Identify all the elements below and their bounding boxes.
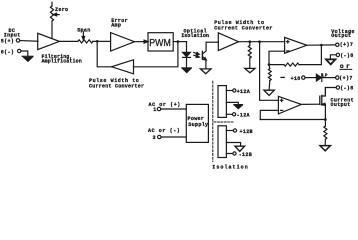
svg-text:Zero: Zero	[55, 7, 68, 13]
wire U6 output to terminal	[307, 44, 336, 46]
label 5(+)	[1, 38, 14, 44]
svg-text:Current Converter: Current Converter	[89, 84, 144, 90]
terminal +12B	[233, 129, 236, 132]
wire error amp to PWM with arrow	[135, 40, 148, 43]
resistor R2 feedback	[284, 63, 299, 66]
op-amp U2 error amp	[111, 33, 135, 51]
resistor R4 source	[324, 120, 327, 146]
label Pulse Width to Current Converter (top)	[214, 20, 273, 32]
label or	[340, 63, 352, 70]
label -12A	[237, 113, 250, 119]
terminal +18	[302, 76, 305, 79]
wire U7 output to gate	[301, 103, 320, 105]
terminal -12A	[233, 113, 236, 116]
wire tap B common	[226, 143, 240, 146]
svg-text:AC or (-): AC or (-)	[148, 128, 180, 134]
label Optical Isolation	[181, 29, 209, 39]
transformer winding B	[218, 126, 226, 158]
potentiometer Zero	[50, 6, 53, 21]
svg-text:Output: Output	[331, 33, 351, 39]
svg-text:Current Converter: Current Converter	[214, 26, 273, 32]
MOSFET Q2	[320, 88, 326, 120]
terminal (-)8 current output	[336, 86, 339, 89]
wire terminal 1 to power supply	[161, 108, 187, 110]
wire +18 to diode	[305, 77, 316, 79]
label DC Input	[4, 28, 21, 39]
label Span	[77, 28, 90, 34]
wire feedback tap down and left	[134, 42, 178, 67]
label Pulse Width to Current Converter (feedback)	[89, 78, 144, 90]
LED D1 optocoupler	[183, 42, 191, 68]
wire source feedback	[260, 119, 325, 121]
svg-text:+12A: +12A	[237, 89, 250, 95]
wire zero pot to op-amp U1	[51, 21, 53, 38]
svg-text:Supply: Supply	[188, 122, 208, 128]
wire PWM output	[173, 41, 186, 43]
label Current Output	[331, 98, 354, 109]
ground (open) at B common	[235, 146, 245, 151]
op-amp U5 pulse width to current converter	[218, 33, 238, 51]
label (-)8 current	[340, 86, 353, 92]
svg-text:-12B: -12B	[239, 152, 252, 158]
svg-text:-12A: -12A	[237, 113, 250, 119]
svg-text:Span: Span	[77, 28, 90, 34]
label Error Amp	[111, 18, 128, 28]
wire tap -12A	[226, 113, 232, 115]
terminal +12A	[233, 89, 236, 92]
terminal -12B	[233, 152, 236, 155]
op-amp U4 feedback pulse width to current converter	[112, 60, 134, 74]
label AC or (-) 3	[148, 128, 180, 141]
node D junction	[258, 40, 261, 43]
label 6(-)	[1, 49, 14, 55]
light arrows optocoupler	[194, 52, 199, 57]
op-amp U7 current output amp	[278, 96, 301, 114]
svg-text:(+)7: (+)7	[340, 42, 353, 48]
op-amp U1 filtering/amplification	[38, 33, 60, 49]
label Isolation	[212, 164, 248, 170]
label (+)7 voltage	[340, 42, 353, 48]
svg-text:Amplification: Amplification	[42, 59, 82, 65]
resistor R3 to ground	[268, 65, 271, 90]
ground (filled) at LED	[182, 68, 192, 73]
wire terminal 3 to power supply	[161, 136, 186, 138]
svg-text:PWM: PWM	[149, 38, 171, 49]
svg-text:6(-): 6(-)	[1, 49, 14, 55]
wire converter output to voltage amp	[239, 41, 285, 43]
wire 6(-) to ground	[21, 51, 28, 56]
svg-text:5(+): 5(+)	[1, 38, 14, 44]
svg-text:(-)8: (-)8	[340, 86, 353, 92]
node G junction	[324, 118, 327, 121]
op-amp U6 voltage output amp	[285, 37, 307, 53]
ground (filled) at DC input	[22, 56, 33, 61]
wire (-)8 to MOSFET drain	[325, 88, 336, 96]
wire tap A common	[226, 102, 238, 104]
wire 5(+) to op-amp U1 input	[20, 40, 38, 43]
diode D2 LP	[316, 74, 321, 82]
label AC or (+) 1	[149, 102, 181, 113]
label +12B	[240, 129, 253, 135]
resistor R1 load	[248, 42, 251, 68]
label Voltage Output	[331, 29, 354, 39]
svg-text:Isolation: Isolation	[212, 164, 248, 170]
svg-text:(-)8: (-)8	[340, 53, 353, 59]
terminal (+)7 current output	[336, 76, 339, 79]
label Filtering, Amplification	[42, 54, 82, 65]
svg-text:Isolation: Isolation	[181, 33, 209, 39]
label Zero	[55, 7, 68, 13]
label +12A	[237, 89, 250, 95]
node E junction at U6 output	[320, 44, 323, 47]
PWM block U3	[148, 33, 173, 51]
ground (filled) at A common	[234, 105, 243, 109]
label (+)7 current	[339, 76, 352, 82]
wire node D down to current amp	[260, 42, 279, 101]
svg-text:+18: +18	[291, 76, 301, 82]
ground (open) at R1	[245, 68, 255, 72]
svg-text:Output: Output	[331, 102, 351, 108]
node B junction at PWM output	[177, 40, 180, 43]
svg-text:Amp: Amp	[111, 23, 121, 29]
power supply block	[186, 104, 208, 142]
potentiometer Span	[78, 40, 93, 43]
wire U6 inverting input	[269, 51, 285, 64]
wire tap +12A	[226, 90, 232, 92]
ground (open) at R3	[264, 90, 274, 95]
ground (open bold) at (-)8	[326, 59, 335, 64]
wire diode to terminal (+)7	[322, 77, 336, 79]
isolation dashed boundary vertical	[212, 81, 214, 161]
wire zero pot top stub	[51, 2, 53, 6]
label -12B	[239, 152, 252, 158]
wire tap -12B	[226, 153, 232, 155]
isolation dashed boundary horizontal	[214, 121, 233, 123]
ground (open) at R4	[320, 146, 330, 151]
terminal (-)8 voltage output	[336, 53, 339, 56]
terminal (+)7 voltage output	[336, 43, 339, 46]
node A junction	[96, 40, 99, 43]
wire phototransistor to converter	[206, 41, 218, 43]
svg-text:or: or	[340, 63, 352, 70]
label +18	[291, 76, 301, 82]
node C junction	[248, 40, 251, 43]
wire R2 to node F	[269, 64, 284, 66]
transformer winding A	[218, 86, 226, 118]
ground (open) at phototransistor	[200, 69, 211, 74]
label (-)8 voltage	[340, 53, 353, 59]
svg-text:LP: LP	[322, 73, 328, 78]
phototransistor Q1	[202, 42, 206, 69]
terminal 3 AC input	[158, 135, 161, 138]
wiper arrow Span	[82, 32, 85, 40]
label LP	[322, 73, 328, 78]
wire (-)8 to ground	[330, 55, 336, 59]
wire stub dash	[281, 76, 284, 78]
wire U7 inverting input	[260, 110, 278, 119]
node F junction	[268, 63, 271, 66]
wire tap +12B	[226, 130, 233, 132]
wire feedback converter output to node A	[97, 41, 111, 66]
label PWM	[149, 38, 171, 49]
svg-text:1: 1	[153, 107, 156, 113]
wire span to node A	[93, 40, 111, 42]
terminal 6(-) DC input	[18, 49, 21, 52]
svg-text:+12B: +12B	[240, 129, 253, 135]
svg-text:3: 3	[153, 135, 156, 141]
terminal 5(+) DC input	[16, 39, 19, 42]
label Power Supply	[188, 116, 209, 128]
svg-text:(+)7: (+)7	[339, 76, 352, 82]
terminal 1 AC input	[157, 107, 160, 110]
wire feedback down	[299, 45, 321, 65]
wire op-amp U1 output	[59, 40, 78, 42]
wiper arrow Zero	[53, 13, 59, 16]
